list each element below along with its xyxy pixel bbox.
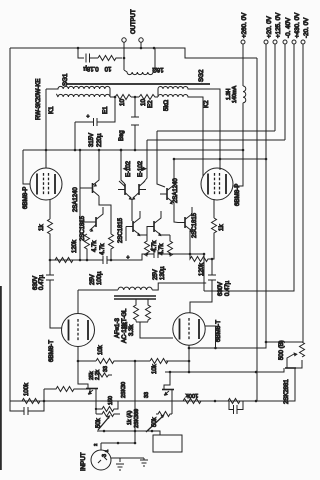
svg-text:25V: 25V (153, 269, 159, 280)
resistor 1k nfb (134, 299, 139, 322)
svg-text:+: + (151, 247, 154, 253)
capacitor fb (24, 407, 33, 415)
svg-text:16Ω: 16Ω (152, 66, 164, 72)
node 215 401 (214, 400, 217, 403)
node rail 150 left coupling (79, 149, 82, 152)
JFET QA left (86, 388, 98, 390)
OUTPUT terminal 2 (139, 38, 143, 42)
OUTPUT terminal 1 (122, 38, 126, 42)
node arrow E102b (143, 167, 148, 171)
node V3 k (77, 360, 80, 363)
wire pot top tie (266, 341, 303, 343)
svg-text:+125. 0V: +125. 0V (275, 12, 282, 38)
svg-text:+260. 0V: +260. 0V (241, 12, 248, 38)
node V4 361 (188, 360, 191, 363)
svg-text:0.47µ: 0.47µ (39, 274, 45, 290)
JFET 2SK2881 (285, 367, 296, 369)
input jack (91, 450, 111, 470)
tube V2 6BM8-P right output (201, 168, 233, 200)
resistor 10 snubber (98, 56, 122, 61)
wire ct (131, 96, 139, 98)
wire +20 rail py159 (174, 158, 266, 160)
svg-text:4.7k: 4.7k (92, 240, 98, 252)
trimmer 500B (296, 342, 305, 368)
resistor 1k V2 grid (212, 218, 217, 259)
resistor 4.7k d (168, 235, 173, 257)
capacitor 130u right in rail (154, 250, 158, 258)
svg-text:0.47µ: 0.47µ (225, 280, 231, 296)
resistor 3.3k nfb (146, 299, 151, 322)
wire long row372 (165, 369, 284, 373)
wire V3 top (77, 290, 79, 314)
wire -0.4 rail py140 (143, 140, 285, 183)
scan edge artifact (0, 286, 2, 470)
svg-text:120k: 120k (72, 239, 78, 253)
svg-text:220µ: 220µ (97, 133, 103, 147)
node coupling left (79, 259, 82, 262)
node ct rail (134, 149, 137, 152)
transistor Q4a 2SC1815 (132, 221, 134, 232)
wire cap row 411 (10, 401, 44, 411)
ground 2 (140, 458, 148, 466)
wire plate lead V1 (45, 89, 47, 168)
choke 1.3H (233, 44, 246, 186)
svg-text:2SK30: 2SK30 (121, 382, 127, 398)
resistor 10 lower (139, 95, 158, 100)
transistor Q4b 2SC1815 (153, 221, 155, 232)
svg-text:6BM8-P: 6BM8-P (234, 184, 241, 206)
svg-text:2SC1815: 2SC1815 (118, 217, 124, 243)
interstage core lines (114, 296, 156, 299)
svg-text:630V: 630V (218, 282, 224, 296)
svg-text:1k (A): 1k (A) (127, 410, 133, 425)
wire row361 right (135, 360, 189, 362)
node grid V1 (49, 259, 52, 262)
nodes 4k7 feet (86, 259, 89, 262)
node snubber right (123, 57, 126, 60)
voltage terminal +430 (292, 40, 296, 44)
voltage terminal +125 (273, 40, 277, 44)
svg-text:10: 10 (104, 65, 111, 71)
svg-text:33: 33 (103, 366, 109, 372)
wire wiper common row (97, 431, 160, 435)
wire +20 to V4 cathode (189, 159, 266, 348)
wire V4 right side (205, 326, 216, 348)
transistor Q3a 2SC1815 (124, 184, 126, 195)
wire grid lead V1 (49, 199, 51, 219)
wire mid rail right py254 (158, 253, 204, 255)
wire V3 cathode down (77, 347, 79, 362)
wire QA source to pot1 (95, 400, 97, 414)
node 256 401 (255, 400, 258, 403)
resistor 10k right (150, 359, 168, 364)
svg-text:100k: 100k (24, 382, 30, 396)
svg-text:SG2: SG2 (198, 69, 205, 82)
svg-text:E1: E1 (102, 106, 109, 114)
resistor 33 (98, 373, 112, 377)
wire driver down right (190, 231, 192, 254)
svg-text:1k: 1k (38, 224, 45, 231)
OPT primary left winding row2 (56, 89, 110, 97)
node 44 401 (43, 400, 46, 403)
svg-text:3.3k: 3.3k (129, 324, 135, 336)
svg-text:SG1: SG1 (62, 73, 69, 86)
wire QA drain row (78, 361, 79, 384)
svg-text:+430. 0V: +430. 0V (294, 12, 301, 38)
tube V4 6BM8-T right input (173, 313, 205, 345)
svg-text:1: 1 (104, 449, 109, 452)
resistor 120k left (55, 258, 73, 263)
svg-text:4.7k: 4.7k (159, 243, 165, 255)
svg-text:33: 33 (144, 392, 150, 398)
svg-text:6BM8-P: 6BM8-P (22, 187, 29, 209)
node 46 150 (45, 149, 48, 152)
svg-text:10k: 10k (98, 344, 104, 355)
OPT secondary winding (124, 48, 155, 75)
wire Q4 bases (126, 227, 154, 242)
wire nfb bottoms (136, 322, 173, 338)
resistor 150 (96, 401, 118, 412)
node terminal2-border (140, 47, 143, 50)
wire QB drain up (169, 372, 171, 375)
svg-text:+20. 0V: +20. 0V (266, 15, 273, 38)
voltage terminal +20 (264, 40, 268, 44)
interstage transformer coil (78, 283, 206, 290)
svg-text:10k: 10k (152, 363, 158, 374)
node 204 254 (203, 253, 206, 256)
node Bsg tap (114, 96, 117, 99)
svg-text:140mA: 140mA (232, 86, 238, 103)
wire QB source to pot2 (171, 400, 173, 414)
node K2 rail20 (219, 158, 222, 161)
node 121 150 (120, 149, 123, 152)
svg-text:2: 2 (93, 443, 98, 446)
svg-text:100µ: 100µ (97, 271, 103, 285)
svg-text:315V: 315V (89, 133, 95, 147)
capacitor 220u (75, 118, 97, 150)
node B center tap (134, 96, 137, 99)
box L-ch (153, 435, 182, 452)
resistor 120k right (190, 254, 212, 262)
svg-text:Bsg: Bsg (118, 130, 125, 141)
transistor Q2 2SC1815 (95, 217, 97, 227)
transistor Q5 2SA1240 (166, 188, 168, 200)
capacitor B ct bypass (131, 97, 139, 150)
svg-text:-0. 40V: -0. 40V (285, 17, 292, 38)
trimmer pot 1 50k (96, 412, 120, 417)
transistor Q6 2SC1815 (184, 217, 186, 228)
wire mid rail left py260 (50, 254, 154, 260)
tube V1 6BM8-P left output (30, 168, 62, 200)
node secondary right top (153, 47, 156, 50)
wire Q3 emitters join (131, 199, 133, 221)
svg-text:4.7k: 4.7k (100, 243, 106, 255)
resistor 4.7k a (85, 234, 90, 260)
resistor rc parallel (228, 399, 240, 404)
resistor 10 upper (115, 95, 131, 100)
svg-text:6BM8-T: 6BM8-T (215, 320, 222, 342)
node Q5 rail (173, 158, 176, 161)
resistor 4.7k c (145, 235, 150, 257)
node cap 047 right top (211, 258, 214, 261)
OPT core SG line (66, 83, 210, 85)
resistor 1k V1 grid (48, 219, 53, 260)
svg-text:-20. 0V: -20. 0V (303, 17, 310, 38)
wire Bsg drop (97, 97, 115, 122)
wire Q1 emitter to R111 (99, 196, 111, 234)
wire left border (9, 48, 11, 401)
capacitor 100u left in rail (103, 256, 107, 264)
OPT primary right winding row1 (158, 87, 220, 170)
wire feedback row 401 (10, 400, 244, 402)
capacitor 0.47u right (190, 259, 216, 313)
svg-text:50k: 50k (152, 416, 158, 427)
svg-text:10: 10 (119, 99, 126, 106)
svg-text:2SK2881: 2SK2881 (284, 379, 290, 404)
voltage terminal -20 (301, 40, 305, 44)
capacitor rc parallel (229, 401, 243, 414)
svg-text:K1: K1 (48, 106, 55, 114)
wire top border left segment (10, 48, 257, 58)
svg-text:130µ: 130µ (160, 266, 166, 280)
JFET QB right (162, 389, 174, 391)
wire snubber drop (78, 48, 84, 58)
svg-text:1k: 1k (218, 224, 225, 231)
wire terminal 1 lead (123, 42, 125, 58)
voltage terminal +260 (241, 40, 245, 44)
wire terminal 2 lead (140, 42, 142, 48)
wire 135 down (134, 361, 136, 443)
capacitor 0.47u left (46, 260, 62, 328)
svg-text:5kΩ: 5kΩ (163, 99, 170, 111)
svg-text:K2: K2 (203, 100, 210, 108)
svg-text:2SC1815: 2SC1815 (192, 212, 198, 238)
resistor 4.7k b (109, 234, 114, 260)
node 135 361 (134, 360, 137, 363)
svg-text:AF≡1-3: AF≡1-3 (115, 317, 121, 338)
svg-text:100k: 100k (186, 392, 199, 398)
svg-text:2SA1240: 2SA1240 (73, 187, 79, 212)
node driver out right (189, 253, 192, 256)
transistor Q3b 2SC1815 (138, 184, 140, 195)
node 243 150 (242, 149, 245, 152)
trimmer pot 2 50k (156, 412, 172, 417)
resistor 100k right fb (183, 399, 201, 404)
wire driver collector feed (121, 150, 125, 184)
wire right long ground return (256, 58, 258, 401)
svg-text:10: 10 (140, 99, 147, 106)
tube V3 6BM8-T left input (62, 314, 95, 347)
wire V3 k row (78, 360, 96, 362)
wire +125 rail py131 (157, 131, 275, 187)
svg-text:3: 3 (102, 454, 108, 457)
resistor 100k feedback (22, 399, 40, 404)
svg-text:+: + (87, 114, 90, 120)
transistor Q1 2SA1240 (92, 183, 94, 193)
node 256 (255, 371, 258, 374)
wire E1 to resistor (110, 96, 115, 98)
node snubber top (77, 47, 80, 50)
node 189 369 (188, 371, 191, 374)
voltage terminal -0.40 (283, 40, 287, 44)
OPT primary left winding row1 (46, 86, 110, 89)
node rail 150 driver (120, 149, 123, 152)
resistor 100k fb gate (44, 387, 90, 393)
node arrow E102a (123, 167, 128, 171)
svg-text:INPUT: INPUT (80, 452, 87, 471)
resistor 10k left (96, 359, 135, 364)
svg-text:500 (B): 500 (B) (279, 340, 285, 360)
svg-text:0.18µ: 0.18µ (83, 65, 99, 71)
node 266 (265, 158, 268, 161)
svg-text:RW-3K20W-KE: RW-3K20W-KE (36, 79, 42, 120)
node 75 cap (74, 149, 77, 152)
svg-text:OUTPUT: OUTPUT (131, 9, 137, 34)
svg-text:2SK389: 2SK389 (134, 409, 140, 428)
wire V4 grid down (188, 346, 190, 373)
OPT primary right winding row2 (158, 95, 203, 177)
node 170 (169, 371, 172, 374)
svg-text:+: + (127, 255, 130, 261)
wire grid lead V2 (213, 199, 215, 218)
ground jack (116, 464, 124, 470)
capacitor 0.18u (86, 54, 98, 63)
svg-text:6BM8-T: 6BM8-T (48, 340, 55, 362)
svg-text:50k: 50k (96, 417, 102, 428)
wire driver left vertical (79, 150, 81, 260)
wire +260 rail py150 (23, 150, 243, 184)
svg-text:E2: E2 (147, 100, 154, 108)
svg-text:2SA1240: 2SA1240 (173, 178, 179, 203)
svg-text:2SC1815: 2SC1815 (80, 215, 86, 241)
svg-text:25V: 25V (90, 274, 96, 285)
wire jack row (101, 442, 135, 444)
